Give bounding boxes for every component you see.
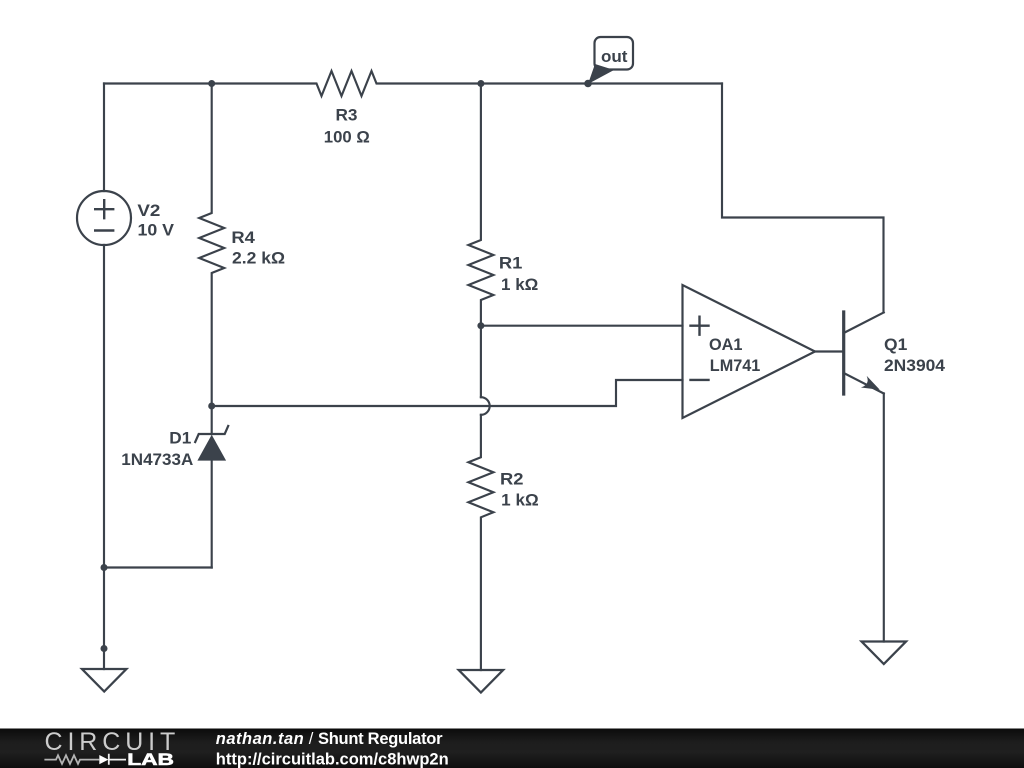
svg-text:2.2 kΩ: 2.2 kΩ [232, 248, 285, 267]
svg-text:1 kΩ: 1 kΩ [501, 275, 538, 294]
svg-text:1 kΩ: 1 kΩ [501, 490, 539, 509]
svg-text:OA1: OA1 [709, 335, 743, 354]
svg-text:V2: V2 [137, 201, 160, 220]
svg-text:D1: D1 [169, 429, 191, 448]
svg-text:nathan.tan / Shunt Regulator: nathan.tan / Shunt Regulator [216, 730, 443, 748]
svg-text:R1: R1 [499, 254, 523, 273]
svg-text:10 V: 10 V [138, 221, 175, 240]
svg-text:2N3904: 2N3904 [884, 356, 946, 375]
svg-text:http://circuitlab.com/c8hwp2n: http://circuitlab.com/c8hwp2n [216, 750, 449, 768]
svg-text:R3: R3 [336, 105, 358, 124]
svg-text:R4: R4 [231, 228, 255, 247]
svg-text:1N4733A: 1N4733A [121, 450, 193, 469]
svg-text:LAB: LAB [127, 751, 174, 768]
svg-text:out: out [601, 47, 628, 66]
svg-text:Q1: Q1 [884, 335, 907, 354]
svg-text:LM741: LM741 [710, 356, 761, 375]
svg-text:R2: R2 [500, 469, 524, 488]
svg-text:100 Ω: 100 Ω [324, 128, 370, 147]
